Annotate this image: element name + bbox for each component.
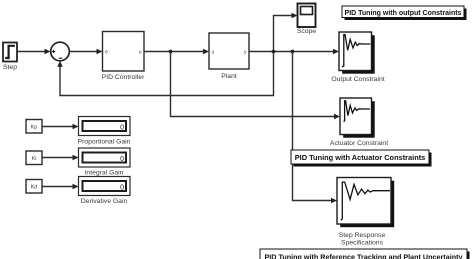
display block Derivative Gain xyxy=(79,177,131,206)
svg-text:PID Controller: PID Controller xyxy=(102,74,145,81)
annotation box PID Tuning with Reference Tracking and Plant Uncertainty xyxy=(260,249,470,259)
svg-text:0: 0 xyxy=(120,156,124,163)
scope block Scope xyxy=(297,4,316,36)
svg-text:Step Response: Step Response xyxy=(339,232,386,239)
wire Plant output to Output Constraint xyxy=(249,49,339,54)
wire tap up to Scope xyxy=(274,13,298,52)
scope display block Step Response Specifications xyxy=(337,178,394,247)
subsystem block PID Controller xyxy=(102,32,145,82)
wire PID Controller to Plant xyxy=(144,49,209,54)
junction node on PID output xyxy=(169,50,173,54)
step source block Step xyxy=(3,43,17,72)
svg-text:PID Tuning with Reference Trac: PID Tuning with Reference Tracking and P… xyxy=(265,252,463,259)
svg-text:Ki: Ki xyxy=(32,156,37,162)
svg-text:Step: Step xyxy=(3,64,17,71)
scope display block Output Constraint xyxy=(331,32,384,83)
svg-text:Output Constraint: Output Constraint xyxy=(331,76,384,83)
svg-text:Integral Gain: Integral Gain xyxy=(85,170,124,177)
svg-text:Plant: Plant xyxy=(221,73,237,80)
junction node feedback/scope tap xyxy=(272,50,276,54)
wire PID output down to Actuator Constraint xyxy=(171,52,341,120)
wire down to Step Response Specifications xyxy=(293,52,338,204)
feedback wire to sum xyxy=(57,52,273,96)
svg-text:Actuator Constraint: Actuator Constraint xyxy=(330,140,388,147)
wire Kp to Proportional Gain display xyxy=(42,124,79,129)
svg-text:Derivative Gain: Derivative Gain xyxy=(81,198,128,205)
constant block Ki xyxy=(26,151,42,165)
svg-text:0: 0 xyxy=(120,185,124,192)
wire Kd to Derivative Gain display xyxy=(42,184,79,189)
svg-text:u: u xyxy=(212,50,215,56)
svg-text:Specifications: Specifications xyxy=(341,240,384,247)
junction node step-response tap xyxy=(291,50,295,54)
svg-text:0: 0 xyxy=(120,125,124,132)
wire Ki to Integral Gain display xyxy=(42,155,79,160)
annotation box PID Tuning with Actuator Constraints xyxy=(291,150,432,167)
svg-text:Proportional Gain: Proportional Gain xyxy=(78,139,131,146)
constant block Kd xyxy=(26,180,42,194)
annotation box PID Tuning with output Constraints xyxy=(342,6,467,20)
display block Proportional Gain xyxy=(78,117,131,146)
wire Sum to PID Controller xyxy=(69,49,102,54)
subsystem block Plant xyxy=(209,33,249,80)
svg-text:Scope: Scope xyxy=(297,28,316,35)
svg-text:PID Tuning with Actuator Const: PID Tuning with Actuator Constraints xyxy=(295,153,426,162)
svg-text:PID Tuning with output Constra: PID Tuning with output Constraints xyxy=(345,10,462,17)
constant block Kp xyxy=(26,120,42,134)
scope display block Actuator Constraint xyxy=(330,98,388,147)
svg-text:Kd: Kd xyxy=(31,185,38,191)
wire Step to Sum xyxy=(17,49,51,54)
svg-text:Kp: Kp xyxy=(31,125,38,131)
sum junction (+/-) xyxy=(51,42,70,61)
display block Integral Gain xyxy=(79,148,131,177)
svg-text:u: u xyxy=(139,50,142,56)
svg-text:e: e xyxy=(105,50,108,56)
